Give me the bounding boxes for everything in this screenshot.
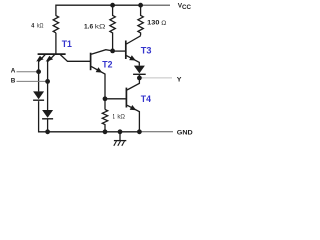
- wire diode D2 anode from node B: [47, 81, 49, 110]
- wire VCC stub to pin: [141, 4, 170, 6]
- junction dot node B: [45, 79, 50, 84]
- wire output Y: [139, 77, 172, 79]
- wire T2 emitter to T4 base: [105, 98, 126, 100]
- svg-text:T3: T3: [141, 45, 152, 56]
- svg-text:130: 130: [147, 20, 159, 27]
- transistor T2 emitter: [91, 66, 105, 98]
- arrowhead T4 emitter: [130, 105, 137, 110]
- wire diode D3 cathode to node Y: [138, 75, 140, 78]
- transistor T1 emitter 2: [48, 55, 55, 82]
- transistor T3 collector: [126, 35, 140, 44]
- transistor T2 base bar: [90, 53, 92, 70]
- svg-text:1.6: 1.6: [84, 23, 93, 30]
- junction dot node N2: [110, 49, 115, 54]
- junction dot top rail at R2: [110, 3, 115, 8]
- wire input A: [17, 71, 39, 73]
- resistor R3 130 Ohm: [138, 5, 143, 35]
- resistor R4 1 kOhm: [102, 110, 107, 132]
- junction dot node Y: [137, 76, 142, 81]
- ground symbol stem: [119, 132, 121, 141]
- arrowhead T2 emitter: [96, 67, 103, 72]
- svg-text:A: A: [11, 68, 16, 75]
- wire R1 bottom to T1 base: [55, 33, 57, 54]
- svg-text:kΩ: kΩ: [95, 23, 106, 30]
- ground symbol hatch 3: [122, 141, 125, 146]
- arrowhead T1 emitter 2: [46, 56, 53, 62]
- svg-text:B: B: [11, 78, 16, 85]
- svg-text:CC: CC: [182, 5, 192, 11]
- wire R2 bottom to node N2: [112, 35, 114, 51]
- junction dot node A: [36, 69, 41, 74]
- diode D2 triangle: [42, 110, 53, 118]
- diode D2 cathode bar: [42, 118, 53, 119]
- svg-text:Y: Y: [177, 77, 182, 84]
- transistor T4 emitter: [127, 105, 139, 132]
- diode D3 triangle: [134, 66, 145, 74]
- transistor T3 emitter: [126, 56, 139, 66]
- wire input B: [17, 80, 48, 82]
- arrowhead T3 emitter: [129, 55, 136, 60]
- svg-text:kΩ: kΩ: [37, 23, 44, 30]
- wire bottom ground rail: [39, 101, 140, 132]
- diode D3 cathode bar: [133, 74, 146, 75]
- wire GND stub to pin: [139, 131, 173, 133]
- wire diode D2 cathode to ground rail: [47, 119, 49, 132]
- transistor T1 collector: [60, 55, 90, 62]
- junction dot top rail at R3: [138, 3, 143, 8]
- svg-text:T4: T4: [141, 94, 152, 105]
- svg-text:4: 4: [31, 23, 34, 30]
- junction dot ground rail at T4 emitter: [137, 129, 142, 134]
- ground symbol hatch 2: [118, 141, 121, 146]
- transistor T1 base bar: [38, 53, 66, 55]
- wire diode D1 anode from node A: [38, 72, 40, 92]
- svg-text:1: 1: [113, 114, 115, 121]
- svg-text:Ω: Ω: [161, 20, 166, 27]
- transistor T2 collector: [91, 50, 112, 55]
- diode D1 triangle: [33, 91, 44, 99]
- wire node N2 to T3 base: [113, 50, 126, 52]
- svg-text:T2: T2: [102, 59, 112, 70]
- junction dot T2 emitter node: [103, 96, 108, 101]
- resistor R1 4 kOhm: [53, 16, 58, 33]
- transistor T4 base bar: [125, 88, 127, 108]
- svg-text:kΩ: kΩ: [117, 114, 125, 121]
- wire T2 emitter node to 1k resistor: [104, 99, 106, 110]
- junction dot ground rail at R4: [103, 129, 108, 134]
- svg-text:GND: GND: [177, 130, 193, 137]
- transistor T4 collector: [127, 78, 139, 90]
- transistor T1 emitter 1: [39, 55, 46, 72]
- ground symbol bar: [114, 140, 126, 142]
- svg-text:T1: T1: [62, 39, 73, 50]
- arrowhead T1 emitter 1: [36, 56, 43, 62]
- junction dot ground rail at ground symbol: [118, 129, 123, 134]
- ground symbol hatch 1: [114, 141, 117, 146]
- transistor T3 base bar: [125, 41, 127, 60]
- resistor R2 1.6 kOhm: [110, 5, 115, 35]
- wire VCC top rail: [56, 5, 141, 16]
- diode D1 cathode bar: [33, 100, 44, 101]
- junction dot ground rail at diodes: [45, 129, 50, 134]
